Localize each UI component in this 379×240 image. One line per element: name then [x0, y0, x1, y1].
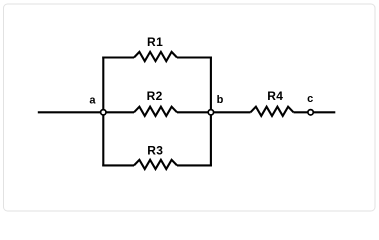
- wire left lead into node a: [38, 111, 104, 113]
- wire top branch right: [177, 56, 212, 58]
- svg-text:a: a: [89, 94, 96, 106]
- svg-text:R1: R1: [147, 35, 163, 49]
- svg-text:c: c: [307, 93, 313, 105]
- svg-text:R4: R4: [267, 89, 283, 103]
- svg-text:R2: R2: [147, 89, 163, 103]
- node c: [308, 110, 313, 115]
- wire top branch left: [102, 56, 134, 58]
- resistor R4: [251, 107, 294, 116]
- wire R4 to node c: [294, 111, 311, 113]
- wire node b to R4: [211, 111, 251, 113]
- wire vertical column at node a: [102, 57, 104, 167]
- resistor R2: [134, 107, 177, 116]
- node a: [101, 110, 106, 115]
- wire bottom branch right: [177, 164, 212, 166]
- node b: [208, 110, 213, 115]
- wire middle branch left: [103, 111, 134, 113]
- wire right lead from node c: [311, 111, 336, 113]
- resistor R3: [134, 160, 177, 169]
- wire middle branch right: [177, 111, 211, 113]
- svg-text:R3: R3: [147, 144, 163, 158]
- resistor R1: [134, 52, 177, 61]
- svg-text:b: b: [217, 94, 224, 106]
- wire vertical column at node b: [210, 57, 212, 167]
- wire bottom branch left: [102, 164, 134, 166]
